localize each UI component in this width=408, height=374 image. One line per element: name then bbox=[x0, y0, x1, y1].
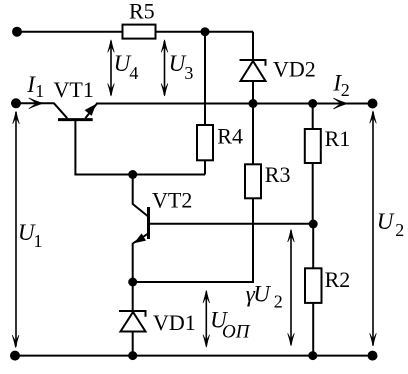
terminal input top-left bbox=[12, 27, 22, 37]
node VD2 anode on output line bbox=[249, 99, 258, 108]
wire VT2 emitter vertical bbox=[132, 243, 134, 283]
svg-text:U: U bbox=[253, 282, 271, 307]
zener diode VD1 bbox=[119, 282, 196, 356]
svg-text:VT2: VT2 bbox=[152, 187, 192, 212]
wire collector lead VT1 bbox=[16, 102, 55, 104]
node junction after R5 bbox=[201, 27, 210, 36]
voltage arrow U-op (reference) bbox=[203, 291, 251, 348]
current arrow I2 bbox=[332, 71, 349, 109]
resistor R4 bbox=[197, 32, 243, 175]
svg-text:4: 4 bbox=[129, 63, 138, 83]
resistor R1 bbox=[305, 104, 350, 225]
wire top left segment bbox=[17, 31, 123, 33]
svg-text:1: 1 bbox=[34, 231, 43, 251]
node divider tap bbox=[309, 220, 318, 229]
svg-text:2: 2 bbox=[341, 80, 350, 100]
node R1 top on output line bbox=[308, 99, 317, 108]
voltage arrow U4 bbox=[108, 40, 139, 96]
wire R3 bottom to VT2 emitter node bbox=[133, 281, 254, 283]
svg-text:R2: R2 bbox=[325, 267, 351, 292]
node VD1 anode on bottom rail bbox=[128, 351, 137, 360]
wire bottom rail bbox=[15, 355, 373, 357]
terminal bottom-right bbox=[368, 351, 378, 361]
node VT2 emitter / R3 bbox=[128, 278, 137, 287]
terminal output top-right bbox=[368, 99, 378, 109]
wire VD2 top lead bbox=[252, 32, 254, 60]
voltage arrow U1 bbox=[12, 111, 42, 347]
svg-text:R3: R3 bbox=[265, 162, 291, 187]
svg-text:R4: R4 bbox=[217, 124, 243, 149]
zener diode VD2 bbox=[240, 56, 316, 81]
svg-text:3: 3 bbox=[184, 63, 193, 83]
resistor R3 bbox=[245, 104, 290, 283]
voltage arrow U3 bbox=[161, 40, 193, 96]
wire emitter output line bbox=[96, 103, 373, 105]
svg-text:U: U bbox=[377, 209, 395, 234]
svg-text:VT1: VT1 bbox=[54, 77, 94, 102]
transistor VT2 bbox=[133, 175, 193, 244]
svg-text:ОП: ОП bbox=[222, 322, 251, 343]
svg-text:R1: R1 bbox=[325, 126, 351, 151]
terminal input mid-left bbox=[11, 98, 21, 108]
svg-text:VD1: VD1 bbox=[153, 310, 196, 335]
svg-text:VD2: VD2 bbox=[273, 56, 316, 81]
wire VT1 base vertical bbox=[74, 120, 76, 175]
svg-text:2: 2 bbox=[274, 292, 283, 312]
current arrow I1 bbox=[26, 72, 44, 109]
node R2 bottom on bottom rail bbox=[308, 351, 317, 360]
resistor R2 bbox=[305, 224, 350, 356]
wire top right segment bbox=[156, 31, 254, 33]
voltage arrow gamma-U2 bbox=[246, 230, 294, 346]
svg-text:1: 1 bbox=[35, 81, 44, 101]
node VT2 collector junction bbox=[128, 170, 137, 179]
resistor R5 bbox=[123, 0, 156, 39]
wire VT1 base to R4 bottom bbox=[74, 174, 205, 176]
wire VT2 base to divider tap bbox=[150, 223, 314, 225]
svg-text:R5: R5 bbox=[129, 0, 155, 24]
svg-text:2: 2 bbox=[395, 220, 404, 240]
terminal bottom-left bbox=[10, 351, 20, 361]
voltage arrow U2 bbox=[370, 111, 405, 346]
transistor VT1 bbox=[54, 77, 98, 120]
wire VD2 bottom lead bbox=[252, 81, 254, 104]
